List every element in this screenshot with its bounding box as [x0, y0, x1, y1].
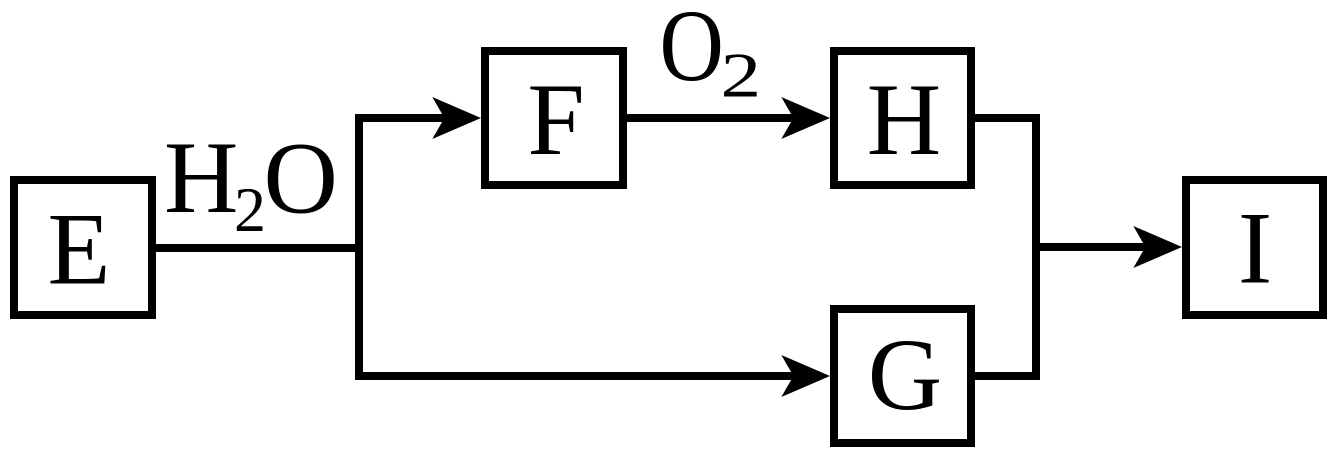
wire branch up to F arrow, down and right to G arrow	[359, 118, 794, 376]
svg-text:G: G	[868, 318, 942, 432]
wire E to branch junction	[152, 244, 363, 252]
box H	[834, 51, 971, 185]
box I	[1186, 180, 1323, 315]
svg-text:E: E	[48, 193, 111, 307]
box F	[485, 51, 623, 185]
svg-text:I: I	[1238, 192, 1272, 306]
wire F to H	[625, 114, 794, 122]
box E	[14, 180, 152, 315]
svg-text:F: F	[527, 63, 584, 177]
arrowhead into I	[1133, 226, 1182, 268]
arrowhead into F	[432, 97, 481, 139]
svg-text:H: H	[164, 121, 238, 235]
box G	[834, 309, 971, 443]
svg-text:O: O	[660, 0, 724, 102]
wire H right, down, left to G right	[971, 118, 1036, 376]
svg-text:H: H	[867, 63, 941, 177]
wire to I	[1036, 243, 1146, 251]
svg-text:O: O	[264, 122, 338, 236]
svg-text:2: 2	[234, 174, 266, 245]
svg-text:2: 2	[721, 40, 762, 111]
arrowhead into G	[781, 355, 830, 397]
arrowhead into H	[781, 97, 830, 139]
